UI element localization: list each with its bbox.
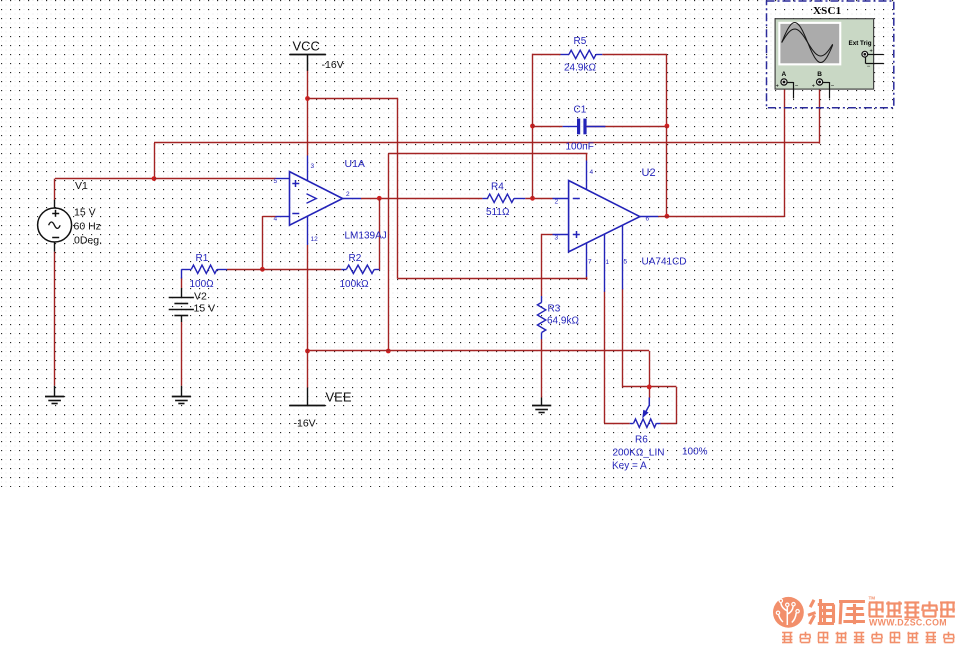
svg-text:WWW.DZSC.COM: WWW.DZSC.COM [869, 617, 947, 627]
pin 2 U2 [555, 199, 559, 206]
oscilloscope XSC1 body [775, 19, 874, 89]
wire U2 output to scope A [667, 216, 784, 218]
node output R2 junction [377, 196, 382, 201]
label V1 [75, 180, 88, 192]
ground for R3 [532, 406, 551, 413]
svg-text:+: + [812, 84, 815, 90]
resistor R3 [537, 296, 545, 339]
svg-text:B: B [817, 71, 822, 78]
svg-text:LM139AJ: LM139AJ [345, 231, 387, 242]
value R1 100ohm [190, 279, 215, 290]
wire R5 right horizontal [602, 54, 667, 56]
label VEE [326, 390, 352, 405]
wire R1 to R2 [227, 269, 341, 271]
watermark TM mark [869, 596, 876, 601]
value R4 511ohm [486, 207, 510, 218]
svg-text:−: − [831, 84, 835, 90]
svg-text:+: + [776, 84, 779, 90]
wire vertical A down [397, 98, 399, 279]
wire U2 pin5 horizontal [623, 386, 677, 388]
value V2 15V [194, 303, 216, 315]
pin 3 U1A [311, 163, 315, 170]
node input junction [152, 176, 157, 181]
node VCC branch junction [305, 96, 310, 101]
resistor R2 [341, 265, 379, 273]
wire U2 pin5 down [622, 289, 624, 388]
label R5 [574, 36, 587, 47]
ground for V2 [172, 386, 191, 404]
value R5 24.9k [564, 63, 596, 74]
potentiometer R6 [630, 398, 661, 428]
svg-text:U1A: U1A [345, 158, 365, 170]
oscilloscope XSC1 selection box [767, 1, 894, 108]
label U2 [642, 167, 656, 179]
wire riser to U2 pin3 [542, 234, 553, 279]
wire VCC rail down to U1A pin3 [307, 71, 309, 156]
svg-text:12: 12 [311, 236, 319, 243]
ground for V1 [45, 386, 64, 404]
svg-text:7: 7 [588, 258, 592, 265]
node R6 wiper junction [647, 385, 652, 390]
op-amp U1A comparator LM139AJ [276, 156, 361, 246]
svg-text:XSC1: XSC1 [813, 5, 841, 17]
node U2 output junction [665, 214, 670, 219]
capacitor C1 [563, 119, 606, 135]
svg-text:100nF: 100nF [566, 141, 594, 152]
wire scope channel B drop [819, 86, 821, 144]
oscilloscope terminal A [776, 71, 799, 99]
pin 12 U1A [311, 236, 319, 243]
value R2 100k [340, 279, 370, 290]
value R6 200K LIN [613, 447, 665, 458]
svg-text:511Ω: 511Ω [486, 207, 510, 218]
svg-text:15 V: 15 V [74, 207, 96, 219]
svg-text:R6: R6 [635, 434, 648, 445]
label C1 [574, 104, 587, 115]
svg-text:24.9kΩ: 24.9kΩ [564, 63, 596, 74]
svg-text:TM: TM [869, 596, 876, 601]
watermark url WWW.DZSC.COM [869, 617, 947, 627]
wire VEE stem black [307, 388, 309, 406]
wire R3 top [541, 279, 543, 296]
battery V2 [169, 288, 194, 322]
svg-text:100kΩ: 100kΩ [340, 279, 370, 290]
oscilloscope screen [778, 22, 841, 66]
wire V1 bottom to ground [54, 252, 56, 386]
pin 6 U2 [646, 216, 650, 223]
AC source V1 [38, 200, 72, 252]
wire VCC branch to vertical A [308, 98, 398, 100]
svg-text:R3: R3 [548, 303, 561, 314]
label R2 [349, 253, 362, 264]
svg-text:UA741CD: UA741CD [642, 257, 687, 268]
wire C1 left lead wire [533, 126, 563, 128]
watermark text weiku large [808, 599, 865, 625]
wire C1 left riser [532, 126, 534, 198]
svg-text:64.9kΩ: 64.9kΩ [547, 315, 579, 326]
svg-text:6: 6 [646, 216, 650, 223]
svg-text:200KΩ_LIN: 200KΩ_LIN [613, 447, 665, 458]
svg-text:V1: V1 [75, 180, 88, 192]
svg-text:100%: 100% [682, 447, 708, 458]
wire R5 right riser [666, 54, 668, 126]
label R3 [548, 303, 561, 314]
svg-text:60 Hz: 60 Hz [74, 221, 101, 233]
wire V1 top corner to input node [55, 179, 155, 201]
svg-text:3: 3 [555, 234, 559, 241]
wire R3 bottom to ground [541, 339, 543, 405]
node pin4 net VEE junction [386, 349, 391, 354]
label R6 [635, 434, 648, 445]
svg-text:R5: R5 [574, 36, 587, 47]
svg-text:U2: U2 [642, 167, 656, 179]
oscilloscope terminal Ext Trig [849, 40, 884, 70]
label R4 [491, 182, 504, 193]
label V2 [194, 291, 207, 303]
oscilloscope terminal B [812, 71, 835, 99]
pin 5 U2 [624, 258, 628, 265]
wire U2 pin1 down [604, 292, 606, 424]
watermark logo circle icon [773, 597, 804, 628]
svg-text:-16V: -16V [294, 418, 316, 430]
power symbol VCC [290, 54, 326, 71]
svg-text:−: − [867, 64, 871, 70]
svg-text:+: + [870, 48, 873, 54]
wire U2 pin4 net riser [586, 154, 588, 161]
value V1 0Deg [74, 235, 102, 247]
wire input node riser to signal line [154, 143, 156, 179]
wire U1A output [361, 198, 482, 200]
svg-text:2: 2 [346, 191, 350, 198]
wire U2 pin4 net vertical down [388, 154, 390, 352]
wire R2 riser [379, 198, 381, 270]
wire R5 left horizontal [533, 54, 561, 56]
svg-text:4: 4 [274, 216, 278, 223]
op-amp U2 UA741CD [553, 161, 659, 292]
svg-text:VEE: VEE [326, 390, 352, 405]
value LM139AJ [345, 231, 387, 242]
pin 3 U2 [555, 234, 559, 241]
pin 1 U2 [606, 259, 610, 266]
svg-text:VCC: VCC [293, 39, 320, 54]
svg-text:15 V: 15 V [194, 303, 216, 315]
wire scope channel A drop [784, 86, 786, 217]
wire C1 node down to U2 output [666, 126, 668, 216]
svg-text:5: 5 [274, 178, 278, 185]
svg-text:100Ω: 100Ω [190, 279, 215, 290]
watermark slogan [782, 632, 954, 643]
wire U2 pin4 net horizontal [388, 153, 587, 155]
wire R5 left riser [532, 54, 534, 126]
resistor R1 [181, 265, 227, 278]
svg-text:-16V: -16V [322, 59, 344, 71]
svg-text:R1: R1 [196, 253, 209, 264]
wire U1A pin12 down to VEE [307, 245, 309, 388]
svg-text:R2: R2 [349, 253, 362, 264]
wire U1A pin4 loop [262, 216, 276, 269]
wire U2 output stub [658, 216, 667, 218]
wire U2 pin1 to R6 left [604, 423, 629, 425]
value C1 100nF [566, 141, 594, 152]
svg-text:1: 1 [606, 259, 610, 266]
wire R4 right to node [525, 198, 552, 200]
value R3 64.9k [547, 315, 579, 326]
pin 5 U1A [274, 178, 278, 185]
resistor R4 [482, 194, 525, 202]
pin 7 U2 [588, 258, 592, 265]
wire long signal line to scope B [154, 142, 820, 144]
watermark text dianzishichangwang [869, 601, 955, 617]
value R6 percent [682, 447, 708, 458]
svg-text:C1: C1 [574, 104, 587, 115]
wire across to U2 plus loop [398, 278, 588, 280]
node R1 R2 junction [260, 267, 265, 272]
svg-text:4: 4 [590, 169, 594, 176]
node VEE symbol junction [305, 349, 310, 354]
wire VEE rail horizontal [308, 350, 650, 352]
wire input node to U1A pin5 [154, 178, 276, 180]
wire R6 right loop [660, 387, 676, 424]
label VCC [293, 39, 320, 54]
wire U2 pin7 stub [586, 277, 588, 280]
resistor R5 [561, 50, 603, 58]
svg-text:3: 3 [311, 163, 315, 170]
label R1 [196, 253, 209, 264]
svg-text:V2: V2 [194, 291, 207, 303]
svg-text:Key = A: Key = A [612, 460, 647, 471]
wire V2 top [181, 278, 183, 289]
value VCC -16V [322, 59, 344, 71]
value VEE -16V [294, 418, 316, 430]
svg-text:A: A [782, 71, 787, 78]
label U1A [345, 158, 365, 170]
svg-text:Ext Trig: Ext Trig [849, 40, 872, 47]
wire C1 right lead wire [587, 126, 667, 128]
svg-text:−: − [795, 84, 799, 90]
wire VEE right drop to wiper [649, 351, 651, 398]
wire V2 bottom to ground [181, 322, 183, 386]
value UA741CD [642, 257, 687, 268]
label XSC1 [813, 5, 841, 17]
node R4 U2 pin2 junction [530, 196, 535, 201]
node C1 right junction [665, 124, 670, 129]
svg-text:0Deg.: 0Deg. [74, 235, 102, 247]
value V1 60Hz [74, 221, 101, 233]
power symbol VEE [289, 405, 325, 407]
svg-text:5: 5 [624, 258, 628, 265]
svg-text:R4: R4 [491, 182, 504, 193]
svg-text:2: 2 [555, 199, 559, 206]
pin 4 U2 [590, 169, 594, 176]
value R6 key [612, 460, 647, 471]
pin 4 U1A [274, 216, 278, 223]
node C1 left junction [530, 124, 535, 129]
pin 2 U1A [346, 191, 350, 198]
value V1 15V [74, 207, 96, 219]
